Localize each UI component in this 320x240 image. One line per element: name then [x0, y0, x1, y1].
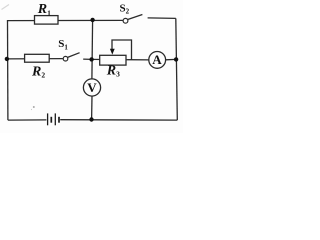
wire: S1 to centre junction — [83, 58, 92, 60]
svg-text:V: V — [87, 80, 97, 95]
junction dot centre mid — [89, 57, 93, 61]
resistor R1 — [35, 16, 59, 25]
wire: R3 branch to ammeter to right — [92, 58, 149, 61]
rheostat R3 wiper arrowhead — [110, 49, 115, 55]
switch S1 blade — [68, 53, 80, 58]
battery cell 2 long plate — [54, 113, 56, 125]
battery cell 1 long plate — [47, 113, 49, 125]
junction dot left mid — [5, 57, 9, 61]
switch S2 blade — [128, 15, 143, 20]
rheostat R3 body — [100, 55, 126, 65]
wire: middle row (R2/S1 branch) — [7, 58, 63, 60]
wire: bottom left to battery — [8, 119, 47, 121]
junction dot top centre — [90, 18, 94, 22]
rheostat R3 wiper bracket — [112, 40, 132, 60]
switch S1 pivot circle — [63, 56, 68, 61]
wire: centre vertical (junction to voltmeter to bottom) — [91, 20, 94, 79]
wire: battery to bottom right corner — [60, 119, 177, 121]
speck (scan noise) — [33, 106, 35, 108]
svg-text:A: A — [152, 52, 162, 67]
junction dot right mid — [174, 57, 178, 61]
wire: right vertical — [176, 18, 178, 120]
voltmeter V — [83, 79, 100, 96]
junction dot bottom centre — [89, 117, 93, 121]
ammeter A — [149, 52, 166, 69]
wire: left vertical — [7, 20, 9, 120]
faint scan smudge top-left — [2, 5, 10, 10]
wire: top horizontal (battery + to R1/S2 row) — [8, 19, 123, 21]
wire: top right after S2 gap — [148, 17, 176, 20]
switch S2 pivot circle — [123, 18, 128, 23]
battery cell 2 short plate — [58, 117, 60, 123]
battery cell 1 short plate — [50, 117, 52, 123]
resistor R2 — [25, 54, 50, 62]
